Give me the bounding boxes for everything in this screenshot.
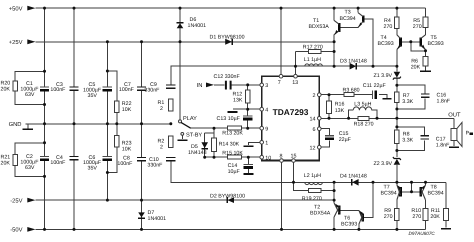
wire D5 vertical bbox=[204, 133, 206, 157]
wire +50V rail bbox=[36, 7, 426, 9]
wire T4 base to T5 base bbox=[401, 41, 420, 43]
pin 14 bbox=[310, 117, 322, 123]
capacitor C15 22uF bbox=[325, 136, 334, 139]
svg-text:270: 270 bbox=[413, 24, 422, 30]
switch lever bbox=[181, 122, 191, 128]
ground ST-BY bbox=[177, 139, 187, 141]
wire R5 top corner bbox=[425, 8, 427, 17]
wire R20 bracket top bbox=[15, 71, 44, 81]
resistor R16 box bbox=[327, 101, 332, 113]
svg-text:3: 3 bbox=[265, 83, 268, 89]
capacitor C13 10uF bbox=[243, 116, 252, 119]
capacitor C11 22uF bbox=[372, 91, 375, 99]
node -50V label bbox=[10, 227, 35, 234]
capacitor C5 1000uF 35V bbox=[103, 87, 112, 90]
diode D2 BYW98100 bbox=[227, 197, 234, 203]
svg-text:D2 BYW98100: D2 BYW98100 bbox=[210, 193, 245, 199]
speaker P label bbox=[466, 130, 474, 136]
resistor R11 label bbox=[430, 208, 440, 220]
capacitor C3 label bbox=[50, 82, 66, 93]
wire D6/play vertical bbox=[179, 8, 181, 120]
zener Z2 3.9V bbox=[393, 157, 401, 165]
svg-text:BDX54A: BDX54A bbox=[310, 210, 331, 216]
wire C17 bottom bbox=[397, 140, 425, 150]
svg-text:R14 30K: R14 30K bbox=[219, 142, 240, 148]
capacitor C6 1000uF 35V bbox=[103, 157, 112, 160]
svg-text:GND: GND bbox=[9, 121, 22, 128]
svg-text:9: 9 bbox=[265, 127, 268, 133]
wire bootstrap pin12 bbox=[319, 140, 329, 147]
resistor R5 label bbox=[413, 18, 422, 30]
wire R4 to T4 bbox=[396, 29, 398, 35]
wire R7 bottom bbox=[396, 102, 398, 127]
transistor T4 BC393 bbox=[397, 35, 401, 50]
capacitor C4 label bbox=[50, 155, 66, 166]
ground R11 bbox=[441, 228, 451, 230]
svg-text:270: 270 bbox=[384, 214, 393, 220]
svg-text:R18 270: R18 270 bbox=[354, 122, 374, 128]
wire C7/C8/D7 vertical bbox=[141, 42, 143, 230]
switch PLAY contact bbox=[179, 120, 182, 123]
wire C5/C6 vertical bbox=[106, 42, 108, 200]
transistor T5 BC393 bbox=[421, 35, 426, 50]
svg-text:35V: 35V bbox=[88, 93, 98, 99]
transistor T6 label bbox=[341, 216, 357, 228]
svg-text:L2 1µH: L2 1µH bbox=[304, 173, 321, 179]
resistor R17 box bbox=[308, 50, 321, 54]
svg-text:7: 7 bbox=[278, 80, 281, 86]
speaker bbox=[451, 122, 462, 146]
transistor T2 BDX54A bbox=[334, 203, 339, 217]
wire T2 collector bbox=[333, 217, 335, 229]
wire pin7 from +50V bbox=[280, 8, 282, 75]
wire R23 tap bbox=[107, 147, 116, 173]
wire input to C12 bbox=[214, 84, 224, 86]
node -25V label bbox=[10, 197, 35, 204]
wire T6 collector bbox=[358, 224, 360, 229]
inductor L1 1uH bbox=[305, 64, 323, 66]
wire bases to Vs- bbox=[411, 182, 413, 192]
svg-text:1.8nF: 1.8nF bbox=[437, 99, 451, 105]
svg-text:P: P bbox=[466, 130, 470, 136]
svg-text:63V: 63V bbox=[25, 165, 35, 171]
svg-text:1.8nF: 1.8nF bbox=[436, 142, 450, 148]
transistor T3 BC394 bbox=[358, 13, 363, 28]
wire R8 top bbox=[396, 127, 398, 130]
wire R22 to gnd rail bbox=[116, 113, 118, 124]
pin 12 bbox=[310, 145, 322, 151]
ground R6 bbox=[420, 70, 431, 72]
resistor R23 label bbox=[122, 140, 132, 152]
svg-text:20K: 20K bbox=[1, 161, 11, 167]
capacitor C15 label bbox=[339, 131, 352, 143]
svg-text:BC393: BC393 bbox=[341, 222, 357, 228]
svg-text:PLAY: PLAY bbox=[183, 116, 197, 122]
wire R14 vertical bbox=[213, 128, 215, 157]
wire T7 base to T8 base bbox=[401, 191, 420, 193]
wire R9 bottom bbox=[396, 221, 398, 230]
resistor R18 box bbox=[358, 116, 369, 120]
zener Z1 3.9V bbox=[393, 72, 401, 80]
svg-text:15: 15 bbox=[291, 154, 297, 160]
wire C16 bottom bbox=[397, 98, 425, 109]
svg-text:14: 14 bbox=[310, 117, 316, 123]
wire speaker drop bbox=[453, 118, 455, 128]
pin 3 bbox=[260, 83, 268, 89]
wire T8 collector to R10 bbox=[425, 200, 427, 209]
wire D5 branch bbox=[205, 128, 214, 133]
svg-text:R19 270: R19 270 bbox=[302, 196, 322, 202]
capacitor C1 label bbox=[20, 81, 39, 98]
svg-text:4: 4 bbox=[265, 108, 268, 114]
svg-text:20K: 20K bbox=[430, 214, 440, 220]
wire R6 top bbox=[425, 51, 427, 57]
node IN label bbox=[197, 83, 214, 90]
svg-text:12: 12 bbox=[310, 146, 316, 152]
wire C11 to gnd bbox=[379, 95, 387, 98]
resistor R4 box bbox=[395, 17, 400, 29]
wire C14 branch bbox=[247, 157, 249, 164]
resistor R13 box bbox=[227, 126, 241, 130]
resistor R10 box bbox=[423, 209, 428, 221]
wire L3 hop left bbox=[349, 110, 354, 118]
wire T6 base rise bbox=[364, 182, 373, 217]
capacitor C9 330nF bbox=[166, 85, 175, 88]
svg-text:R15 10K: R15 10K bbox=[222, 150, 243, 156]
pin 10 bbox=[260, 155, 271, 161]
wire pin8 to -50V bbox=[281, 162, 283, 229]
ground C14 bbox=[243, 173, 253, 175]
ground pin4/R12 bbox=[227, 111, 237, 113]
wire T1 emitter feed vertical bbox=[333, 42, 335, 66]
transistor T4 label bbox=[378, 35, 394, 47]
wire base bracket T4T5 bbox=[411, 42, 426, 51]
wire R11 gnd tick bbox=[445, 221, 447, 228]
svg-text:13K: 13K bbox=[233, 97, 243, 103]
resistor R16 label bbox=[335, 102, 345, 114]
resistor R10 label bbox=[411, 208, 421, 220]
wire T5 emitter down bbox=[425, 49, 427, 51]
svg-text:L3 5µH: L3 5µH bbox=[354, 102, 371, 108]
ground pin1 bbox=[243, 145, 253, 147]
pin 15 bbox=[291, 154, 297, 163]
svg-text:270: 270 bbox=[384, 24, 393, 30]
resistor R9 label bbox=[384, 208, 393, 220]
capacitor C1 1000uF 63V bbox=[40, 87, 49, 90]
svg-text:OUT: OUT bbox=[448, 111, 461, 118]
svg-text:Z2 3.9V: Z2 3.9V bbox=[374, 161, 393, 167]
svg-text:R3 680: R3 680 bbox=[343, 88, 360, 94]
svg-text:10µF: 10µF bbox=[228, 169, 241, 175]
resistor R5 box bbox=[423, 17, 428, 28]
wire T2 emitter bbox=[333, 200, 335, 203]
capacitor C5 label bbox=[83, 82, 102, 99]
wire R20 bracket bottom bbox=[15, 91, 44, 104]
transistor T1 BDX53A bbox=[334, 20, 339, 35]
wire T1 base bbox=[340, 26, 358, 28]
capacitor C8 label bbox=[117, 155, 133, 166]
svg-text:R13 20K: R13 20K bbox=[222, 131, 243, 137]
capacitor C14 10uF bbox=[244, 164, 253, 167]
wire T4 emitter down bbox=[396, 50, 398, 72]
wire C12 to pin3 bbox=[232, 84, 260, 86]
resistor R15 box bbox=[227, 155, 241, 159]
svg-text:2: 2 bbox=[160, 106, 163, 112]
transistor T8 BC394 bbox=[421, 185, 426, 200]
svg-text:3.3K: 3.3K bbox=[402, 137, 413, 143]
switch ST-BY contact bbox=[181, 133, 184, 136]
svg-text:1N4001: 1N4001 bbox=[188, 23, 207, 29]
svg-text:-25V: -25V bbox=[10, 197, 22, 204]
diode D5 label bbox=[188, 144, 207, 156]
transistor T5 label bbox=[428, 35, 444, 47]
svg-text:22µF: 22µF bbox=[339, 137, 352, 143]
svg-text:330nF: 330nF bbox=[144, 88, 160, 94]
svg-text:R17 270: R17 270 bbox=[303, 44, 323, 50]
wire -50V rail bbox=[36, 228, 426, 230]
wire R19 bracket left bbox=[294, 182, 309, 190]
wire right chain R4 top bbox=[396, 8, 398, 17]
capacitor C4 100nF bbox=[69, 157, 78, 160]
wire pin13 stub bbox=[295, 52, 297, 75]
ground GND rail symbol bbox=[23, 128, 34, 130]
wire L3 hop right bbox=[372, 110, 377, 118]
resistor R12 label bbox=[233, 91, 243, 103]
pin 2 bbox=[313, 93, 322, 99]
wire T2 base bbox=[340, 209, 359, 211]
svg-text:13: 13 bbox=[292, 80, 298, 86]
wire pin15 stub bbox=[293, 162, 295, 182]
svg-text:-50V: -50V bbox=[10, 227, 22, 234]
wire C3/C4 vertical bbox=[73, 8, 75, 229]
diode D1 BYW98100 bbox=[225, 39, 232, 45]
svg-text:D97AU807C: D97AU807C bbox=[409, 231, 436, 236]
wire ST-BY tick bbox=[181, 135, 183, 139]
wire T1 collector bbox=[333, 8, 335, 20]
wire R16 lead bottom bbox=[328, 113, 330, 118]
svg-text:20K: 20K bbox=[411, 64, 421, 70]
wire GND rail bbox=[26, 123, 171, 125]
transistor T8 label bbox=[428, 184, 444, 196]
wire bootstrap pin6 bbox=[319, 129, 329, 136]
node +25V label bbox=[9, 39, 36, 46]
capacitor C10 label bbox=[147, 157, 163, 168]
wire R17 bracket bbox=[296, 51, 309, 53]
wire R6 gnd tick bbox=[425, 66, 427, 70]
wire R16 feedback top bbox=[319, 94, 344, 96]
wire R21 bracket bottom bbox=[15, 166, 44, 177]
wire T2 emitter feed vertical bbox=[333, 182, 335, 200]
capacitor C2 label bbox=[20, 154, 39, 171]
inductor L2 1uH bbox=[305, 182, 323, 184]
svg-text:+50V: +50V bbox=[9, 5, 23, 12]
wire T3 collector bbox=[357, 8, 359, 13]
wire T7 collector to R9 bbox=[396, 200, 398, 209]
svg-text:R16: R16 bbox=[335, 102, 345, 108]
wire Z1 to node bbox=[396, 79, 398, 92]
svg-text:8: 8 bbox=[280, 154, 283, 160]
wire R17 right bracket bbox=[321, 51, 334, 53]
resistor R20 label bbox=[1, 81, 11, 93]
capacitor C8 100nF bbox=[137, 158, 146, 161]
diode D7 label bbox=[148, 210, 167, 222]
wire R11 lead bbox=[445, 182, 447, 208]
wire pin1 gnd bbox=[248, 142, 260, 145]
transistor T2 label bbox=[310, 204, 331, 216]
resistor R8 label bbox=[402, 131, 413, 143]
resistor R22 box bbox=[115, 101, 120, 113]
svg-text:ST-BY: ST-BY bbox=[186, 133, 202, 139]
diode D7 1N4001 bbox=[138, 212, 145, 218]
resistor R23 box bbox=[115, 136, 120, 148]
ground speaker bbox=[449, 146, 459, 148]
svg-text:TDA7293: TDA7293 bbox=[273, 107, 309, 117]
wire C1/C2 vertical bbox=[44, 8, 46, 229]
pin 6 bbox=[313, 127, 322, 133]
capacitor C14 label bbox=[228, 163, 241, 175]
resistor R21 label bbox=[1, 155, 11, 167]
wire Vs+ line bbox=[171, 66, 397, 85]
wire -25V rail bbox=[36, 199, 335, 201]
wire C16 branch bbox=[397, 85, 425, 94]
wire Vs- line bbox=[171, 161, 446, 183]
capacitor C12 330nF bbox=[226, 81, 231, 90]
wire R12 vertical bbox=[247, 85, 249, 128]
svg-text:BC393: BC393 bbox=[428, 41, 444, 47]
op-amp U1 TDA7293 box bbox=[262, 76, 320, 160]
svg-text:63V: 63V bbox=[25, 92, 35, 98]
svg-text:330nF: 330nF bbox=[147, 163, 163, 169]
svg-text:D3 1N4148: D3 1N4148 bbox=[340, 58, 367, 64]
wire R21 bracket top bbox=[15, 143, 44, 155]
diode D4 1N4148 bbox=[352, 179, 359, 186]
wire speaker gnd tick bbox=[453, 140, 455, 146]
wire T7 emitter up bbox=[396, 182, 398, 185]
svg-text:2: 2 bbox=[160, 144, 163, 150]
svg-text:L1 1µH: L1 1µH bbox=[304, 57, 321, 63]
capacitor C2 1000uF 63V bbox=[40, 157, 49, 160]
svg-text:C12 330nF: C12 330nF bbox=[214, 74, 241, 80]
svg-text:Z1 3.9V: Z1 3.9V bbox=[374, 73, 393, 79]
junction dots all nets bbox=[43, 7, 427, 231]
wire stby line bbox=[191, 127, 260, 129]
resistor R6 label bbox=[411, 58, 421, 70]
svg-text:10K: 10K bbox=[122, 107, 132, 113]
wire C14 to gnd bbox=[247, 169, 249, 173]
resistor R4 label bbox=[384, 18, 393, 30]
resistor R2 box bbox=[169, 136, 174, 148]
wire R23 from gnd rail bbox=[116, 124, 118, 136]
svg-text:1: 1 bbox=[265, 141, 268, 147]
capacitor C7 label bbox=[119, 82, 135, 93]
wire R5 to T5 bbox=[425, 27, 427, 35]
capacitor C3 100nF bbox=[69, 87, 78, 90]
svg-text:D4 1N4148: D4 1N4148 bbox=[340, 174, 367, 180]
resistor R1 label bbox=[158, 100, 165, 112]
wire Z2 to Vs- bbox=[396, 165, 398, 182]
svg-text:1N4001: 1N4001 bbox=[148, 216, 167, 222]
wire R22 tap bbox=[107, 71, 116, 101]
wire T3 base drop bbox=[364, 19, 373, 66]
wire R10 bottom bbox=[425, 221, 427, 230]
svg-text:BC394: BC394 bbox=[340, 16, 356, 22]
transistor T7 BC394 bbox=[397, 185, 401, 200]
svg-text:D1 BYW98100: D1 BYW98100 bbox=[210, 35, 245, 41]
capacitor C16 label bbox=[437, 93, 451, 105]
resistor R20 box bbox=[13, 81, 18, 91]
wire mute line bbox=[205, 156, 260, 158]
pin 13 bbox=[292, 74, 298, 86]
svg-text:13K: 13K bbox=[335, 108, 345, 114]
svg-text:100nF: 100nF bbox=[119, 87, 135, 93]
svg-text:+25V: +25V bbox=[9, 39, 23, 46]
svg-text:3.3K: 3.3K bbox=[402, 99, 413, 105]
svg-text:T3: T3 bbox=[345, 10, 351, 16]
wire R8 bottom to Z2 bbox=[396, 144, 398, 158]
svg-text:1N4148: 1N4148 bbox=[188, 150, 207, 156]
resistor R8 box bbox=[395, 130, 400, 144]
wire R16 lead bbox=[328, 95, 330, 101]
svg-text:35V: 35V bbox=[88, 166, 98, 172]
resistor R3 box bbox=[344, 93, 354, 97]
capacitor C7 100nF bbox=[137, 87, 146, 90]
svg-text:C11 22µF: C11 22µF bbox=[363, 83, 387, 89]
wire R3 to C11 bbox=[354, 94, 373, 96]
pin 1 bbox=[260, 141, 268, 147]
resistor R14 box bbox=[212, 138, 217, 152]
transistor T7 label bbox=[381, 184, 397, 196]
svg-text:100nF: 100nF bbox=[50, 160, 66, 166]
node GND label bbox=[9, 121, 22, 128]
svg-text:BC394: BC394 bbox=[381, 190, 397, 196]
diode D6 label bbox=[188, 17, 207, 29]
svg-text:6: 6 bbox=[313, 127, 316, 133]
resistor R7 label bbox=[402, 93, 413, 105]
wire +25V rail bbox=[36, 41, 335, 43]
resistor R19 box bbox=[308, 189, 321, 193]
resistor R7 box bbox=[395, 92, 400, 103]
svg-text:IN: IN bbox=[197, 83, 203, 89]
svg-text:270: 270 bbox=[412, 214, 421, 220]
capacitor C9 label bbox=[144, 82, 160, 93]
resistor R6 box bbox=[423, 56, 428, 66]
inductor L3 5uH bbox=[353, 107, 372, 110]
resistor R2 label bbox=[158, 138, 165, 150]
svg-text:10K: 10K bbox=[122, 146, 132, 152]
resistor R22 label bbox=[122, 101, 132, 113]
diode D6 1N4001 bbox=[177, 23, 184, 29]
svg-text:BDX53A: BDX53A bbox=[309, 24, 330, 30]
pin 8 bbox=[280, 154, 284, 163]
svg-text:100nF: 100nF bbox=[50, 87, 66, 93]
capacitor C10 330nF bbox=[166, 158, 175, 161]
capacitor C17 label bbox=[436, 136, 450, 148]
transistor T1 label bbox=[309, 18, 330, 30]
wire R19 bracket right bbox=[321, 190, 334, 192]
wire C17 branch bbox=[397, 127, 425, 136]
node +50V label bbox=[9, 5, 36, 12]
pin 9 bbox=[260, 126, 268, 132]
svg-text:BC394: BC394 bbox=[428, 190, 444, 196]
resistor R9 box bbox=[395, 209, 400, 221]
capacitor C16 1.8nF bbox=[421, 94, 430, 97]
capacitor C6 label bbox=[83, 155, 102, 172]
svg-text:100nF: 100nF bbox=[117, 161, 133, 167]
resistor R11 box bbox=[444, 209, 449, 221]
diode D5 1N4148 bbox=[201, 142, 208, 148]
pin 4 bbox=[260, 107, 268, 113]
svg-text:2: 2 bbox=[313, 93, 316, 99]
